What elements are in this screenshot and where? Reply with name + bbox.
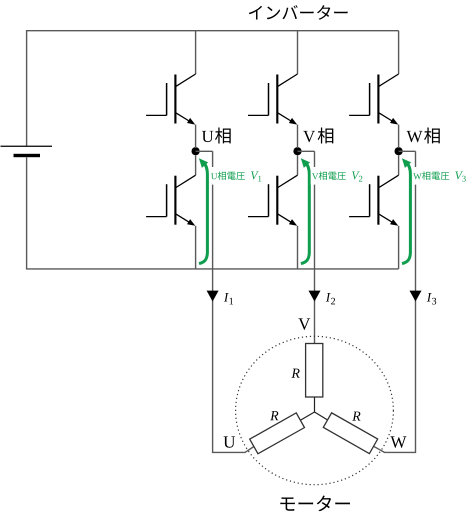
label motor title モーター <box>280 496 350 512</box>
node W phase output junction <box>395 147 403 155</box>
resistor R phase W winding <box>323 413 377 454</box>
label V相 phase V <box>303 127 333 143</box>
label W相 phase W <box>407 127 440 143</box>
battery V_dc positive plate <box>1 145 53 147</box>
transistor Q1L U-phase low side IGBT <box>146 155 196 226</box>
label I3 <box>427 293 436 305</box>
battery V_dc negative plate <box>14 154 41 157</box>
current arrow I1 <box>207 291 219 302</box>
wire V winding to star point <box>314 397 316 412</box>
voltage arrow V3 W-phase voltage (green) <box>402 158 411 263</box>
transistor Q3L W-phase low side IGBT <box>349 155 399 226</box>
label W motor terminal <box>390 436 406 448</box>
current arrow I2 <box>309 291 321 302</box>
voltage arrow V1 U-phase voltage (green) <box>199 158 208 263</box>
wire DC bus top rail and left link upper segment <box>27 31 399 147</box>
label V motor terminal <box>298 318 310 330</box>
wire DC bus bottom rail and left link lower segment <box>27 157 399 269</box>
wire node V stub to output line <box>298 150 315 152</box>
label R phase W winding value <box>352 412 360 421</box>
wire V low-side emitter to bottom rail <box>297 226 299 269</box>
transistor Q2L V-phase low side IGBT <box>248 155 298 226</box>
wire node W stub to output line <box>399 150 416 152</box>
wire U low-side emitter to bottom rail <box>195 226 197 269</box>
wire V output line down to motor terminal V <box>314 151 316 343</box>
current arrow I3 <box>410 291 422 302</box>
label W相電圧 V3 phase voltage (green) <box>412 167 467 185</box>
node V phase output junction <box>293 147 301 155</box>
resistor R phase V winding <box>306 344 323 398</box>
transistor Q3H W-phase high side IGBT <box>349 31 399 125</box>
wire W low-side emitter to bottom rail <box>398 226 400 269</box>
node U phase output junction <box>192 147 200 155</box>
wire W high-side emitter to node <box>398 125 400 148</box>
label R phase U winding value <box>270 411 278 420</box>
label V相電圧 V2 phase voltage (green) <box>311 167 364 185</box>
transistor Q2H V-phase high side IGBT <box>248 31 298 125</box>
wire U output line down to motor terminal U <box>213 151 254 452</box>
wire U high-side emitter to node <box>195 125 197 148</box>
transistor Q1H U-phase high side IGBT <box>146 31 196 125</box>
label U motor terminal <box>223 436 235 447</box>
label U相 phase U <box>202 127 231 143</box>
motor boundary dotted circle <box>236 336 394 484</box>
wire W output line down to motor terminal W <box>373 151 415 452</box>
label R phase V winding value <box>291 369 299 378</box>
label I2 <box>326 293 335 304</box>
wire node U stub to output line <box>196 150 213 152</box>
voltage arrow V2 V-phase voltage (green) <box>301 158 310 263</box>
label U相電圧 V1 phase voltage (green) <box>210 167 263 185</box>
label inverter title インバーター <box>249 5 348 20</box>
node star point <box>300 412 314 420</box>
label I1 <box>224 293 233 304</box>
resistor R phase U winding <box>250 413 305 454</box>
wire V high-side emitter to node <box>297 125 299 148</box>
